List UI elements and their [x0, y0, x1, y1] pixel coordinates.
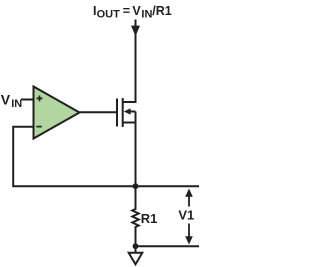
V1 arrow down: [185, 224, 193, 245]
wire source to node: [135, 112, 137, 187]
ground: [129, 246, 143, 264]
wire node to V1 top: [136, 185, 200, 187]
svg-text:V1: V1: [178, 208, 194, 223]
wire feedback (- input to source node): [13, 127, 135, 186]
svg-text:VIN: VIN: [1, 91, 22, 110]
svg-text:R1: R1: [141, 211, 158, 226]
transistor M1 NMOS: [117, 98, 136, 127]
node junction source/feedback: [133, 183, 139, 189]
wire op-amp output to gate: [80, 111, 117, 113]
svg-text:IOUT=VIN/R1: IOUT=VIN/R1: [93, 4, 172, 21]
wire VIN to + input: [21, 99, 34, 101]
V1 arrow up: [185, 189, 193, 207]
wire node to V1 bottom: [136, 245, 200, 247]
arrow IOUT current direction: [131, 26, 140, 37]
wire IOUT / drain: [122, 20, 135, 103]
resistor R1: [132, 186, 138, 246]
op-amp A1: [34, 87, 80, 139]
node junction R1/ground: [133, 243, 139, 249]
